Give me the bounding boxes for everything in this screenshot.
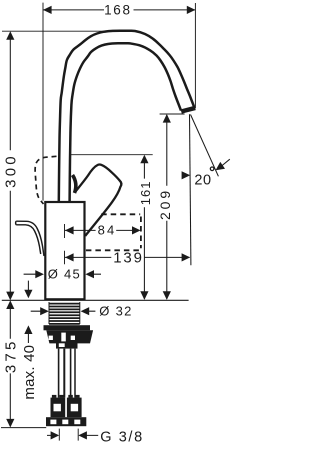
svg-text:161: 161	[138, 181, 153, 206]
svg-text:300: 300	[2, 153, 19, 188]
svg-text:max. 40: max. 40	[21, 345, 38, 400]
svg-text:Ø 45: Ø 45	[48, 266, 81, 281]
svg-text:Ø 32: Ø 32	[99, 304, 132, 319]
svg-text:168: 168	[104, 3, 132, 18]
svg-text:209: 209	[157, 188, 173, 220]
svg-text:20: 20	[194, 173, 211, 189]
svg-text:84: 84	[98, 223, 117, 238]
svg-text:375: 375	[3, 338, 20, 373]
svg-text:G 3/8: G 3/8	[100, 430, 143, 446]
svg-text:139: 139	[113, 250, 143, 267]
